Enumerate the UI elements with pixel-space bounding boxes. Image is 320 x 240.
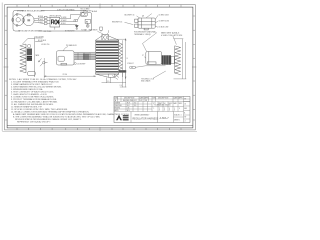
- connector detail right (body): [146, 52, 162, 65]
- svg-text:REGULATOR HARNESS: REGULATOR HARNESS: [133, 118, 159, 121]
- svg-text:ENGRG: ENGRG: [115, 108, 121, 110]
- svg-text:REGULATOR MOUNTING: REGULATOR MOUNTING: [18, 29, 42, 32]
- connector eyelet C02: [86, 25, 89, 28]
- fuse box component: [85, 19, 90, 24]
- svg-text:BLK/WHT 16: BLK/WHT 16: [125, 15, 135, 17]
- svg-text:MARK IDENT (A-80A-7): MARK IDENT (A-80A-7): [161, 31, 180, 34]
- svg-text:1.5: 1.5: [107, 81, 109, 83]
- wire A to R04: [34, 17, 50, 23]
- left spring coil: [20, 44, 26, 73]
- leader to connector detail: [143, 33, 166, 79]
- tape leader curves: [98, 30, 109, 34]
- wires right of R04: [60, 14, 81, 25]
- title block rows: [114, 102, 184, 112]
- svg-text:9-8: 9-8: [134, 103, 136, 105]
- svg-text:2.0: 2.0: [120, 85, 122, 87]
- border zone ticks right: [192, 16, 196, 120]
- border zone ticks left: [4, 16, 9, 120]
- svg-text:N WHT: N WHT: [61, 20, 67, 22]
- leader curve: [64, 47, 69, 51]
- outer border frame: [5, 5, 196, 130]
- connector pin block: [162, 55, 175, 64]
- bottom strip line: [7, 124, 193, 126]
- ground eyelet G01: [130, 66, 136, 68]
- svg-text:B WHT: B WHT: [38, 19, 43, 21]
- svg-text:HOUSING ASSY (NATURAL): HOUSING ASSY (NATURAL): [134, 31, 157, 34]
- svg-text:SI: SI: [27, 51, 30, 55]
- svg-text:SHEET 1: SHEET 1: [174, 120, 180, 122]
- svg-text:9-12: 9-12: [140, 100, 143, 102]
- company logo: [116, 115, 122, 120]
- svg-text:LOOM .250: LOOM .250: [41, 44, 49, 46]
- right spring coil on harness: [119, 43, 123, 72]
- ground symbol G: [75, 25, 78, 29]
- svg-text:X: X: [164, 110, 165, 112]
- border zone ticks top: [17, 4, 181, 9]
- svg-text:22.50: 22.50: [63, 74, 68, 76]
- svg-text:DESC: DESC: [169, 103, 173, 105]
- revision strip: [114, 97, 190, 123]
- right spring coil: [175, 46, 181, 75]
- svg-text:16 RED 0.85f: 16 RED 0.85f: [159, 15, 170, 17]
- svg-text:F GRN: F GRN: [61, 17, 67, 19]
- taped sleeve marker SI: [27, 44, 32, 61]
- small bottom dimension: [102, 73, 127, 88]
- svg-text:DESCRIPTION: DESCRIPTION: [158, 97, 168, 99]
- small connector symbol near section corner: [100, 27, 103, 32]
- svg-text:QTY: QTY: [153, 103, 156, 105]
- svg-text:RED/WHT 16: RED/WHT 16: [112, 22, 122, 24]
- connector housing detail box: [57, 51, 75, 65]
- logo box: [116, 112, 131, 123]
- svg-text:SPEC: SPEC: [179, 103, 183, 105]
- svg-text:SH: SH: [184, 99, 186, 101]
- notes block: [9, 78, 130, 123]
- svg-text:8: 8: [127, 58, 128, 60]
- svg-text:(CIRCUIT DIAGRAM): (CIRCUIT DIAGRAM): [57, 9, 75, 12]
- sheet edge shadow: [2, 3, 197, 132]
- regulator side view circle: [22, 14, 34, 26]
- svg-text:NO.30 BLK: NO.30 BLK: [38, 40, 47, 42]
- svg-text:EYELET: EYELET: [128, 63, 134, 65]
- drawing number: [160, 112, 184, 123]
- svg-text:C01 PLUG: C01 PLUG: [44, 31, 52, 33]
- svg-text:HOUSING, LOCK: HOUSING, LOCK: [141, 78, 155, 80]
- svg-text:A RED: A RED: [38, 15, 44, 18]
- lead line from eyelet to housing: [135, 66, 165, 68]
- leader wires from connector P: [155, 15, 158, 27]
- svg-text:C BLK: C BLK: [38, 22, 44, 24]
- small tape end detail: [112, 76, 118, 80]
- relay module R04: [50, 15, 62, 27]
- svg-text:REVISED PER ECO: REVISED PER ECO: [123, 100, 138, 102]
- border zone ticks bottom: [17, 127, 181, 131]
- svg-text:A-80A-7: A-80A-7: [160, 117, 170, 120]
- title text: [133, 112, 159, 123]
- svg-text:(REGULATOR): (REGULATOR): [50, 15, 62, 18]
- svg-text:16 WHT 0.85f: 16 WHT 0.85f: [159, 20, 170, 22]
- regulator face view circle: [12, 13, 24, 26]
- svg-text:X: X: [174, 110, 175, 112]
- inline connector symbols: [44, 16, 47, 24]
- harness top tape tab: [96, 35, 119, 41]
- left detail end cap: [28, 72, 36, 76]
- battery terminal component: [80, 12, 87, 16]
- right dimension lines: [173, 36, 186, 79]
- harness wrapped trunk: [96, 40, 119, 74]
- small arrow marks: [39, 59, 43, 67]
- svg-text:TO AMMETER: TO AMMETER: [80, 10, 92, 13]
- lead bundle to harness: [74, 53, 96, 60]
- svg-text:TO BAT: TO BAT: [81, 29, 87, 32]
- svg-text:16 BLK 0.85f: 16 BLK 0.85f: [159, 26, 169, 28]
- svg-text:1/1: 1/1: [184, 103, 186, 105]
- svg-text:& VEND CODE, APPX SIZE: & VEND CODE, APPX SIZE: [161, 34, 183, 37]
- dimension line (vertical) right of harness: [110, 39, 127, 79]
- title block outline: [114, 97, 190, 123]
- svg-text:X: X: [159, 110, 160, 112]
- dimension line under connector detail: [44, 58, 95, 78]
- svg-text:DESCRIPTION: DESCRIPTION: [124, 97, 134, 99]
- svg-text:LOOM REF: LOOM REF: [77, 64, 85, 66]
- svg-text:X: X: [169, 110, 170, 112]
- svg-text:REFERENCE: DWG A-80A, GROUP 7.: REFERENCE: DWG A-80A, GROUP 7.: [17, 120, 51, 123]
- svg-text:9-9: 9-9: [134, 105, 136, 107]
- small eyelet on extension: [43, 61, 48, 64]
- left detail leader lines: [23, 37, 43, 78]
- svg-text:WT: WT: [184, 117, 186, 119]
- svg-text:CHECKED: CHECKED: [115, 105, 123, 107]
- inline connector on middle wire: [74, 20, 77, 22]
- R04 bottom lead: [54, 27, 56, 30]
- svg-text:TERMINALS: 3 REQD: TERMINALS: 3 REQD: [134, 33, 152, 36]
- schematic section enclosure box: [13, 11, 92, 32]
- svg-text:REV: REV: [184, 108, 187, 110]
- harness bottom branch: [96, 70, 127, 77]
- inner border frame: [7, 7, 193, 128]
- svg-text:NO.30 RED: NO.30 RED: [36, 37, 45, 39]
- svg-text:VOLTAGE REGULATOR ASSY: VOLTAGE REGULATOR ASSY: [17, 10, 45, 13]
- right narrow column: [184, 102, 191, 120]
- svg-text:B RED/WHT: B RED/WHT: [65, 30, 74, 32]
- connector P (top right): [135, 18, 156, 30]
